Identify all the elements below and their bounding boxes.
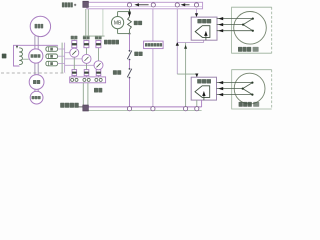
svg-text:MB: MB xyxy=(114,21,122,27)
